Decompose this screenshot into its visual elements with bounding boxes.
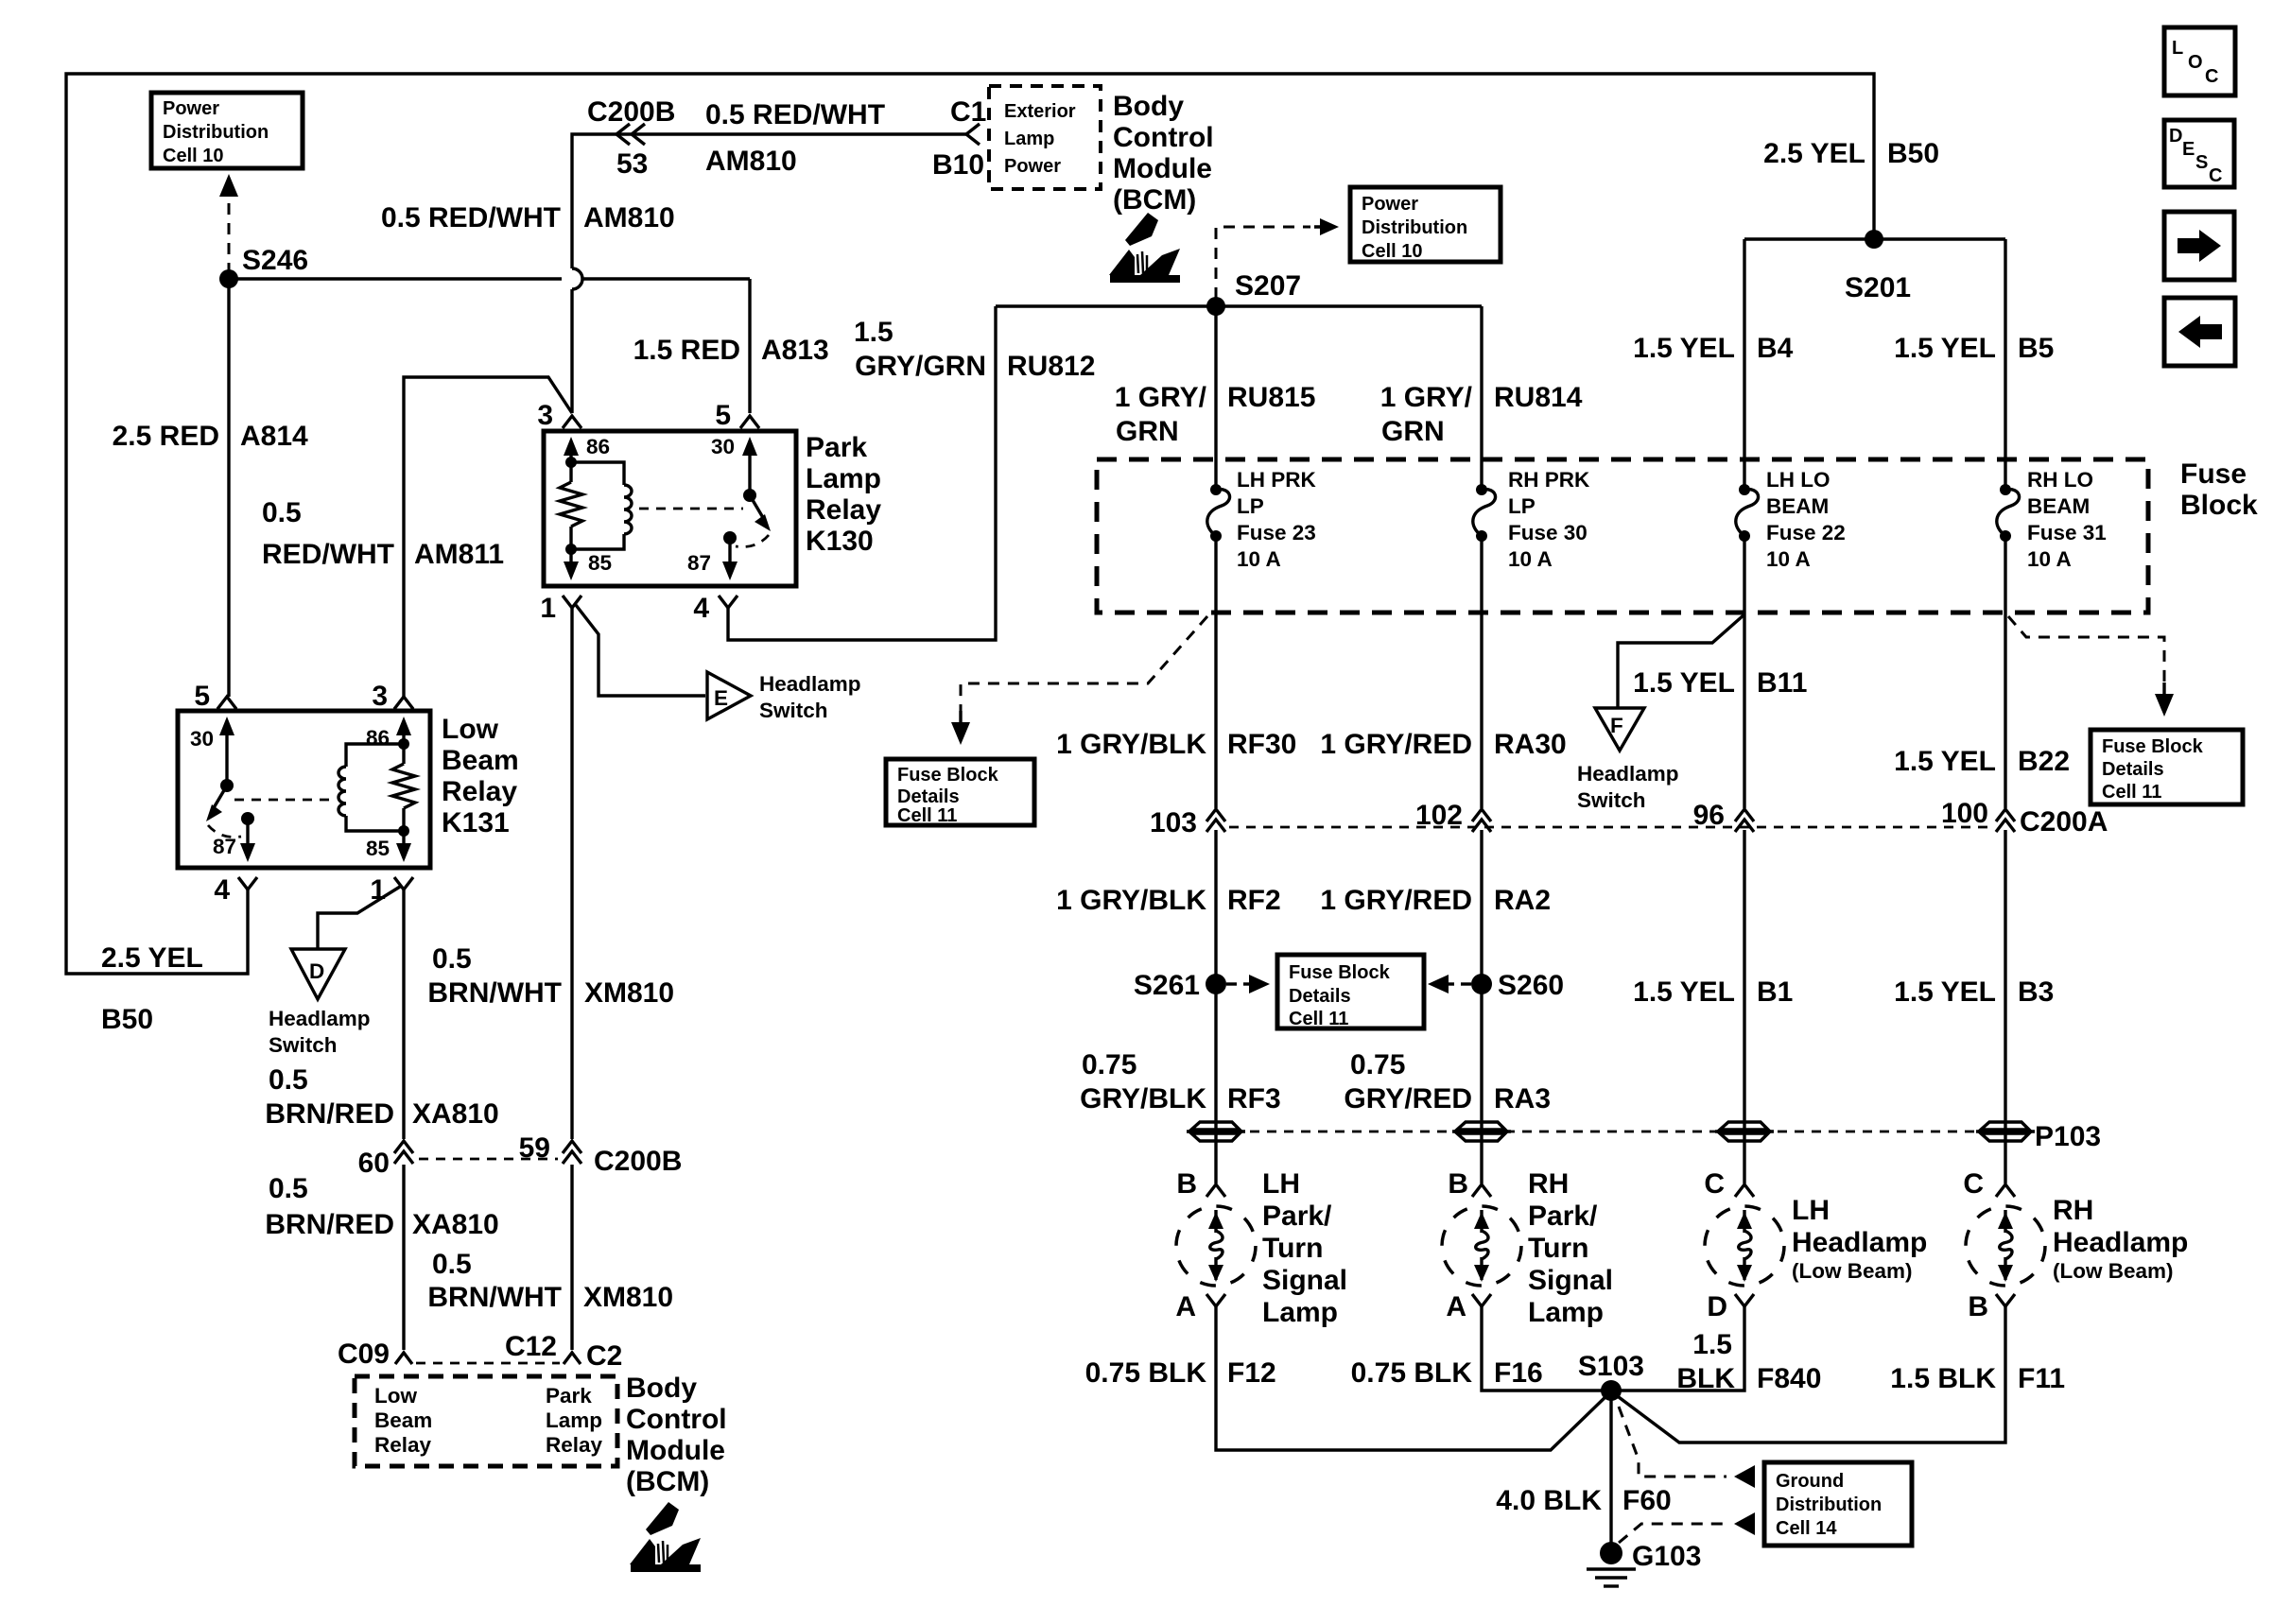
svg-text:LP: LP: [1237, 494, 1264, 518]
K131 coil terminal 85 arrow: [402, 831, 405, 847]
svg-text:Headlamp: Headlamp: [2053, 1227, 2188, 1258]
K130 pin 3 (top left): [563, 416, 581, 428]
svg-text:Lamp: Lamp: [1262, 1297, 1338, 1328]
svg-text:0.75 BLK: 0.75 BLK: [1085, 1357, 1207, 1389]
svg-text:Fuse 30: Fuse 30: [1508, 521, 1588, 544]
svg-text:AM811: AM811: [414, 539, 504, 570]
svg-text:Power: Power: [1004, 156, 1061, 177]
svg-text:Signal: Signal: [1262, 1265, 1347, 1296]
svg-text:(BCM): (BCM): [1113, 184, 1196, 216]
svg-text:Distribution: Distribution: [163, 122, 269, 143]
K131 pin 1 (bottom right): [394, 877, 413, 890]
wire S207 bus: [996, 304, 1482, 307]
box Ground Distribution Cell 14: [1764, 1462, 1912, 1546]
svg-text:Fuse: Fuse: [2180, 458, 2247, 490]
svg-text:BRN/RED: BRN/RED: [265, 1098, 394, 1130]
svg-text:Low: Low: [374, 1384, 417, 1408]
svg-text:S103: S103: [1578, 1351, 1644, 1382]
svg-text:B50: B50: [101, 1004, 153, 1035]
svg-text:87: 87: [687, 551, 711, 575]
svg-text:Cell 11: Cell 11: [1289, 1009, 1348, 1029]
svg-text:Switch: Switch: [269, 1033, 338, 1057]
svg-text:K130: K130: [806, 526, 874, 557]
box Power Distribution Cell 10 (centre): [1350, 187, 1501, 262]
svg-text:103: 103: [1150, 807, 1197, 838]
svg-text:1.5 RED: 1.5 RED: [633, 335, 740, 366]
fuse block dashed outline: [1097, 459, 2148, 613]
svg-text:4: 4: [693, 593, 709, 624]
dashed hook to Fuse Block Details (left): [961, 616, 1207, 711]
node S207: [1206, 297, 1225, 316]
wire 4.0 BLK F60 to ground: [1609, 1391, 1612, 1548]
K131 coil-switch link (dashed): [234, 799, 333, 802]
svg-text:XA810: XA810: [412, 1098, 499, 1130]
svg-text:S201: S201: [1845, 272, 1911, 303]
svg-text:Cell 10: Cell 10: [1362, 241, 1422, 262]
svg-text:1.5 YEL: 1.5 YEL: [1894, 976, 1996, 1008]
svg-text:Details: Details: [1289, 986, 1351, 1007]
box Fuse Block Details Cell 11 (left): [886, 759, 1034, 825]
svg-text:53: 53: [616, 148, 648, 180]
node S246: [219, 269, 238, 288]
svg-text:Module: Module: [1113, 153, 1212, 184]
svg-text:Park: Park: [806, 432, 867, 463]
wire 1.5 YEL B4: [1743, 239, 1745, 490]
svg-text:Fuse Block: Fuse Block: [2102, 736, 2204, 757]
lamp LH Park/Turn Signal Lamp pin B: [1206, 1184, 1225, 1197]
K131 switch contact 87 arrow: [241, 812, 254, 825]
svg-text:XA810: XA810: [412, 1209, 499, 1240]
ESD symbol (BCM bottom): [630, 1502, 701, 1572]
lamp LH Headlamp (Low Beam) bulb: [1705, 1206, 1784, 1286]
BCM pins C09 / C12 / C2: [395, 1353, 412, 1364]
svg-text:4: 4: [214, 874, 230, 906]
connector P103 (dashed with grommets): [1216, 1131, 2005, 1133]
svg-text:RA3: RA3: [1494, 1083, 1551, 1114]
svg-text:85: 85: [366, 837, 390, 860]
svg-text:Power: Power: [1362, 194, 1418, 215]
node S201: [1865, 230, 1883, 249]
grommet P103 at F840: [1720, 1122, 1768, 1130]
svg-text:Headlamp: Headlamp: [1577, 762, 1679, 786]
svg-text:Turn: Turn: [1528, 1233, 1588, 1264]
svg-text:96: 96: [1693, 800, 1725, 831]
lamp RH Headlamp pin C: [1996, 1184, 2015, 1197]
svg-text:(Low Beam): (Low Beam): [1792, 1259, 1913, 1283]
svg-text:RA30: RA30: [1494, 729, 1567, 760]
svg-text:RF2: RF2: [1227, 885, 1281, 916]
svg-text:C: C: [1704, 1168, 1725, 1200]
svg-text:E: E: [714, 686, 728, 710]
lamp RH Headlamp (Low Beam) bulb: [1966, 1206, 2045, 1286]
svg-text:L: L: [2172, 38, 2183, 59]
lamp LH Headlamp pin D: [1735, 1294, 1754, 1306]
lamp LH Headlamp pin C: [1735, 1184, 1754, 1197]
fuse 31 (RH LO BEAM 10A): [2000, 484, 2011, 495]
svg-text:1.5: 1.5: [854, 317, 894, 348]
grommet P103 at RF3: [1191, 1122, 1240, 1130]
K130 coil-switch link (dashed): [639, 508, 743, 510]
K131 pin 4 (bottom left): [238, 877, 257, 890]
svg-text:A: A: [1175, 1291, 1196, 1322]
svg-text:RU812: RU812: [1007, 351, 1095, 382]
svg-text:Relay: Relay: [442, 776, 517, 807]
svg-text:4.0 BLK: 4.0 BLK: [1496, 1485, 1602, 1516]
svg-text:Fuse Block: Fuse Block: [1289, 962, 1391, 983]
svg-text:10 A: 10 A: [1508, 547, 1553, 571]
fuse 22 (LH LO BEAM 10A): [1739, 484, 1750, 495]
connector C200B pins 60/59: [394, 1141, 413, 1153]
svg-text:Lamp: Lamp: [1004, 129, 1054, 149]
svg-text:1.5 BLK: 1.5 BLK: [1890, 1363, 1996, 1394]
svg-text:B3: B3: [2018, 976, 2054, 1008]
svg-text:Fuse 23: Fuse 23: [1237, 521, 1316, 544]
svg-text:Fuse 22: Fuse 22: [1766, 521, 1846, 544]
svg-text:0.5: 0.5: [432, 943, 472, 975]
svg-text:Park/: Park/: [1528, 1201, 1598, 1232]
svg-text:Details: Details: [897, 786, 960, 807]
svg-text:LH: LH: [1262, 1168, 1300, 1200]
K131 pin 3 (top right): [394, 697, 413, 709]
svg-text:BRN/WHT: BRN/WHT: [427, 1282, 562, 1313]
svg-text:Module: Module: [626, 1435, 725, 1466]
svg-text:RH: RH: [2053, 1195, 2093, 1226]
svg-text:F12: F12: [1227, 1357, 1276, 1389]
K130 switch common 30 arrow: [748, 452, 751, 495]
svg-text:S246: S246: [242, 245, 308, 276]
svg-text:86: 86: [586, 435, 610, 458]
svg-text:Park/: Park/: [1262, 1201, 1332, 1232]
svg-text:1 GRY/: 1 GRY/: [1115, 382, 1207, 413]
svg-text:B50: B50: [1887, 138, 1939, 169]
pin C1/B10 chevron into BCM: [966, 124, 980, 145]
wire RF30/RF2/RF3 column: [1214, 536, 1217, 1183]
svg-text:Beam: Beam: [442, 745, 519, 776]
svg-text:0.5 RED/WHT: 0.5 RED/WHT: [381, 202, 561, 233]
box Exterior Lamp Power (dashed, BCM pin function): [989, 86, 1101, 189]
K130 pin 4 (bottom right): [719, 596, 737, 608]
svg-text:0.5 RED/WHT: 0.5 RED/WHT: [705, 99, 885, 130]
svg-text:Fuse 31: Fuse 31: [2027, 521, 2107, 544]
svg-text:Block: Block: [2180, 490, 2258, 521]
svg-text:Distribution: Distribution: [1362, 217, 1467, 238]
K131 switch blade: [220, 779, 234, 792]
svg-text:Switch: Switch: [1577, 788, 1646, 812]
svg-text:F11: F11: [2018, 1363, 2065, 1394]
svg-text:G103: G103: [1632, 1541, 1701, 1572]
grommet P103 at RA3: [1457, 1122, 1505, 1130]
svg-text:C: C: [1963, 1168, 1984, 1200]
svg-text:B: B: [1968, 1291, 1988, 1322]
svg-text:5: 5: [194, 681, 210, 712]
svg-text:B11: B11: [1757, 667, 1807, 699]
box Fuse Block Details Cell 11 (right): [2091, 730, 2243, 804]
svg-text:0.75: 0.75: [1350, 1049, 1405, 1080]
K131 coil terminal 86 arrow: [402, 732, 405, 744]
svg-text:Distribution: Distribution: [1776, 1494, 1882, 1515]
wire K130 pin 4 to RU812 riser: [728, 306, 996, 640]
svg-text:1.5 YEL: 1.5 YEL: [1633, 333, 1735, 364]
svg-text:D: D: [309, 959, 324, 983]
svg-text:B: B: [1448, 1168, 1468, 1200]
svg-text:Relay: Relay: [806, 494, 881, 526]
svg-text:C200B: C200B: [587, 96, 675, 128]
svg-text:2.5 YEL: 2.5 YEL: [101, 942, 203, 974]
svg-text:BRN/RED: BRN/RED: [265, 1209, 394, 1240]
svg-text:Signal: Signal: [1528, 1265, 1613, 1296]
svg-text:BEAM: BEAM: [1766, 494, 1829, 518]
svg-text:Body: Body: [626, 1373, 697, 1404]
svg-text:(Low Beam): (Low Beam): [2053, 1259, 2174, 1283]
svg-text:RU815: RU815: [1227, 382, 1315, 413]
lamp RH Headlamp pin B: [1996, 1294, 2015, 1306]
svg-text:S260: S260: [1498, 970, 1564, 1001]
svg-text:A813: A813: [761, 335, 829, 366]
K130 resistor (parallel with coil): [565, 457, 577, 468]
svg-text:85: 85: [588, 551, 612, 575]
svg-text:XM810: XM810: [583, 1282, 673, 1313]
K131 resistor (parallel with coil): [398, 738, 409, 750]
lamp LH Park/Turn Signal Lamp bulb: [1176, 1206, 1256, 1286]
K131 pin 5 (top left): [217, 697, 236, 709]
wire branch to headlamp switch F: [1618, 614, 1744, 708]
lamp RH Park/Turn Signal Lamp pin A: [1472, 1294, 1491, 1306]
node S261 with arrow: [1206, 974, 1226, 994]
K130 switch contact 87 arrow: [723, 531, 737, 544]
svg-text:Fuse Block: Fuse Block: [897, 765, 999, 786]
grommet P103 at F11: [1981, 1122, 2029, 1130]
svg-text:Cell 11: Cell 11: [897, 805, 957, 826]
legend box DESC: [2164, 120, 2234, 187]
svg-text:C09: C09: [338, 1339, 390, 1370]
svg-text:RED/WHT: RED/WHT: [262, 539, 394, 570]
fuse 30 (RH PRK LP 10A): [1476, 484, 1487, 495]
svg-text:Control: Control: [626, 1404, 727, 1435]
wire RA30/RA2/RA3 column: [1480, 536, 1483, 1183]
svg-text:S207: S207: [1235, 270, 1301, 302]
svg-text:C2: C2: [586, 1340, 622, 1372]
svg-text:B: B: [1176, 1168, 1197, 1200]
wire B11/B1 column (LH low beam): [1743, 536, 1745, 1183]
svg-text:RH: RH: [1528, 1168, 1569, 1200]
svg-text:10 A: 10 A: [2027, 547, 2072, 571]
svg-text:A814: A814: [240, 421, 308, 452]
svg-text:E: E: [2182, 139, 2195, 160]
svg-text:0.5: 0.5: [269, 1064, 308, 1096]
svg-text:GRY/GRN: GRY/GRN: [855, 351, 986, 382]
svg-text:BRN/WHT: BRN/WHT: [427, 977, 562, 1009]
svg-text:10 A: 10 A: [1237, 547, 1281, 571]
wire K131 pin 1 down (XA810) with D branch: [402, 890, 405, 1350]
svg-text:2.5 RED: 2.5 RED: [113, 421, 219, 452]
svg-text:B10: B10: [932, 149, 984, 181]
svg-text:RA2: RA2: [1494, 885, 1551, 916]
box Fuse Block Details Cell 11 (middle): [1277, 955, 1424, 1028]
svg-text:1.5 YEL: 1.5 YEL: [1633, 667, 1735, 699]
svg-text:B22: B22: [2018, 746, 2070, 777]
lamp RH Park/Turn Signal Lamp bulb: [1442, 1206, 1521, 1286]
svg-text:Exterior: Exterior: [1004, 101, 1076, 122]
svg-text:K131: K131: [442, 807, 510, 838]
svg-text:1.5 YEL: 1.5 YEL: [1633, 976, 1735, 1008]
svg-text:S: S: [2195, 152, 2208, 173]
svg-text:BEAM: BEAM: [2027, 494, 2090, 518]
K130 switch travel arc (dashed): [736, 535, 769, 547]
box Body Control Module (dashed): [355, 1376, 617, 1466]
svg-text:Turn: Turn: [1262, 1233, 1323, 1264]
K130 coil terminal 86 arrow: [569, 452, 572, 462]
wire RU815: S207 down to fuse 23: [1214, 306, 1217, 490]
wire 1.5 YEL B5: [2004, 239, 2006, 490]
wire 1.5 BLK F840 to S103: [1611, 1306, 1744, 1391]
svg-text:Cell 14: Cell 14: [1776, 1518, 1837, 1539]
svg-text:Control: Control: [1113, 122, 1214, 153]
svg-text:Low: Low: [442, 714, 499, 745]
box Power Distribution Cell 10 (top-left): [151, 93, 303, 168]
K131 switch common 30 arrow: [225, 732, 228, 786]
svg-text:30: 30: [711, 435, 735, 458]
svg-text:F60: F60: [1622, 1485, 1672, 1516]
svg-text:1 GRY/BLK: 1 GRY/BLK: [1056, 729, 1206, 760]
svg-text:F840: F840: [1757, 1363, 1821, 1394]
svg-text:1.5 YEL: 1.5 YEL: [1894, 333, 1996, 364]
svg-text:Headlamp: Headlamp: [759, 672, 861, 696]
svg-text:(BCM): (BCM): [626, 1466, 709, 1497]
wire 1.5 BLK F11 to S103: [1611, 1306, 2005, 1443]
svg-text:1 GRY/BLK: 1 GRY/BLK: [1056, 885, 1206, 916]
svg-text:B5: B5: [2018, 333, 2054, 364]
svg-text:GRN: GRN: [1381, 416, 1445, 447]
svg-text:S261: S261: [1134, 970, 1200, 1001]
K130 pin 5 (top right): [740, 416, 759, 428]
svg-text:2.5 YEL: 2.5 YEL: [1763, 138, 1865, 169]
K130 pin 1 (bottom left): [563, 596, 581, 608]
svg-text:F16: F16: [1494, 1357, 1543, 1389]
wire K130 pin 1 to E branch and XM810 drop: [570, 608, 573, 1350]
svg-text:Relay: Relay: [546, 1433, 603, 1457]
ESD symbol (BCM top): [1109, 213, 1180, 283]
svg-text:BLK: BLK: [1676, 1363, 1735, 1394]
svg-text:B1: B1: [1757, 976, 1793, 1008]
svg-text:RF30: RF30: [1227, 729, 1296, 760]
svg-text:Switch: Switch: [759, 699, 828, 722]
svg-text:C: C: [2209, 165, 2222, 186]
svg-text:XM810: XM810: [584, 977, 674, 1009]
svg-text:1 GRY/RED: 1 GRY/RED: [1320, 729, 1472, 760]
svg-text:LH LO: LH LO: [1766, 468, 1831, 492]
svg-text:Cell 10: Cell 10: [163, 146, 223, 166]
svg-text:RH PRK: RH PRK: [1508, 468, 1590, 492]
svg-text:102: 102: [1415, 800, 1463, 831]
fuse 23 (LH PRK LP 10A): [1210, 484, 1222, 495]
svg-text:100: 100: [1941, 798, 1988, 829]
buffer D (headlamp switch): [291, 949, 345, 999]
svg-text:60: 60: [358, 1148, 390, 1179]
wire S201 bus: [1744, 237, 2005, 240]
svg-text:RU814: RU814: [1494, 382, 1583, 413]
svg-text:Ground: Ground: [1776, 1471, 1844, 1492]
svg-text:3: 3: [537, 400, 553, 431]
wire S246 bus to A813 corner (hop over AM810 vertical): [229, 277, 750, 280]
dashed hook to Fuse Block Details (right): [2008, 616, 2164, 682]
node S103: [1601, 1380, 1622, 1401]
relay K130 box: [544, 431, 796, 586]
legend box right-arrow: [2164, 212, 2234, 280]
svg-text:1 GRY/RED: 1 GRY/RED: [1320, 885, 1472, 916]
svg-text:3: 3: [372, 681, 388, 712]
svg-text:87: 87: [213, 835, 236, 858]
svg-text:Cell 11: Cell 11: [2102, 782, 2161, 803]
wire B22/B3 column (RH low beam): [2004, 536, 2006, 1183]
K130 coil terminal 85 arrow: [569, 549, 572, 565]
node S260 with arrow: [1471, 974, 1492, 994]
svg-text:1: 1: [540, 593, 556, 624]
svg-text:Power: Power: [163, 98, 219, 119]
dashed arrow S246 to Power Distribution box: [228, 200, 231, 274]
dashed arrow S207 to Power Distribution box: [1216, 227, 1310, 299]
svg-text:Body: Body: [1113, 91, 1184, 122]
svg-text:1 GRY/: 1 GRY/: [1380, 382, 1473, 413]
dashed arrows to Ground Distribution: [1619, 1407, 1726, 1477]
svg-text:LH: LH: [1792, 1195, 1830, 1226]
buffer F (headlamp switch): [1595, 708, 1644, 751]
svg-text:86: 86: [366, 726, 390, 750]
svg-text:Details: Details: [2102, 759, 2164, 780]
svg-text:59: 59: [519, 1132, 550, 1164]
svg-text:Relay: Relay: [374, 1433, 432, 1457]
wire RU814: S207 bus corner down to fuse 30: [1480, 306, 1483, 490]
svg-text:A: A: [1446, 1291, 1466, 1322]
svg-text:C200A: C200A: [2020, 806, 2108, 838]
K130 relay coil: [571, 462, 624, 485]
svg-text:LH PRK: LH PRK: [1237, 468, 1317, 492]
svg-text:Lamp: Lamp: [806, 463, 881, 494]
wire 0.75 BLK F16 to S103: [1482, 1306, 1611, 1391]
svg-text:1.5: 1.5: [1692, 1329, 1732, 1360]
wire 0.5 RED/WHT AM810 horizontal (C200B to BCM C1): [572, 134, 966, 413]
svg-text:P103: P103: [2035, 1121, 2101, 1152]
svg-text:RF3: RF3: [1227, 1083, 1281, 1114]
legend box left-arrow: [2164, 298, 2235, 366]
svg-text:GRN: GRN: [1116, 416, 1179, 447]
wire B50 loop: K131 pin 4 down, left rail, top rail to S201: [66, 74, 1874, 974]
svg-text:D: D: [1707, 1291, 1727, 1322]
svg-text:0.75 BLK: 0.75 BLK: [1351, 1357, 1473, 1389]
svg-text:30: 30: [190, 727, 214, 751]
svg-text:Park: Park: [546, 1384, 592, 1408]
svg-text:C200B: C200B: [594, 1146, 682, 1177]
svg-text:0.5: 0.5: [262, 497, 302, 528]
svg-text:B4: B4: [1757, 333, 1794, 364]
svg-text:1.5 YEL: 1.5 YEL: [1894, 746, 1996, 777]
svg-text:O: O: [2188, 52, 2203, 73]
K130 switch blade: [743, 489, 756, 502]
svg-text:Headlamp: Headlamp: [1792, 1227, 1927, 1258]
svg-text:0.5: 0.5: [432, 1249, 472, 1280]
svg-text:Headlamp: Headlamp: [269, 1007, 371, 1030]
svg-text:GRY/BLK: GRY/BLK: [1080, 1083, 1206, 1114]
svg-text:D: D: [2169, 126, 2182, 147]
svg-text:Lamp: Lamp: [546, 1408, 602, 1432]
wire 0.5 RED/WHT AM811 : K131 pin 3 up to K130 pin 3: [404, 377, 572, 697]
svg-text:AM810: AM810: [705, 146, 797, 177]
svg-text:Beam: Beam: [374, 1408, 432, 1432]
svg-text:C12: C12: [505, 1331, 557, 1362]
wire 1.5 RED A813: [748, 279, 751, 413]
lamp RH Park/Turn Signal Lamp pin B: [1472, 1184, 1491, 1197]
svg-text:RH LO: RH LO: [2027, 468, 2093, 492]
K131 relay coil: [346, 744, 404, 767]
